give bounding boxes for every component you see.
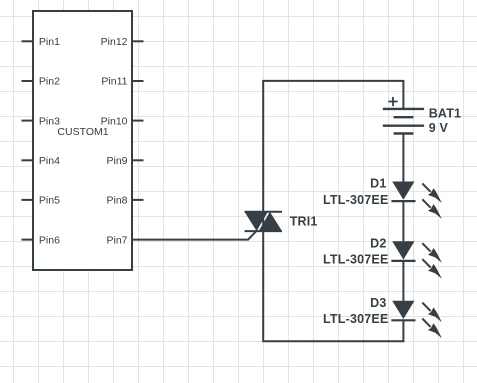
svg-text:Pin11: Pin11 [101, 76, 127, 88]
wire D2 to D3 [402, 261, 404, 301]
pin 5 stub [22, 199, 34, 201]
triac TRI1 [245, 212, 283, 231]
wire triac to battery (top rail) [263, 81, 403, 212]
LED D1 [391, 182, 442, 220]
svg-text:LTL-307EE: LTL-307EE [323, 312, 388, 326]
wire triac to bottom rail [263, 231, 403, 341]
pin 8 stub [132, 199, 144, 201]
svg-text:9 V: 9 V [429, 121, 449, 135]
IC U1 CUSTOM1 body [33, 11, 132, 270]
svg-text:TRI1: TRI1 [290, 215, 318, 229]
svg-text:Pin9: Pin9 [106, 155, 127, 167]
svg-text:D3: D3 [370, 296, 386, 310]
svg-text:Pin5: Pin5 [39, 195, 60, 207]
svg-text:Pin1: Pin1 [39, 36, 60, 48]
svg-text:LTL-307EE: LTL-307EE [323, 193, 388, 207]
svg-text:Pin4: Pin4 [39, 155, 60, 167]
svg-text:BAT1: BAT1 [429, 107, 462, 121]
svg-text:CUSTOM1: CUSTOM1 [57, 126, 108, 138]
pin 6 stub [22, 239, 34, 241]
svg-text:Pin7: Pin7 [106, 234, 127, 246]
pin 10 stub [132, 120, 144, 122]
pin 9 stub [132, 159, 144, 161]
svg-text:Pin6: Pin6 [39, 234, 60, 246]
battery plus sign [388, 97, 397, 106]
pin 3 stub [22, 120, 34, 122]
pin 12 stub [132, 40, 144, 42]
svg-text:LTL-307EE: LTL-307EE [323, 253, 388, 267]
svg-text:D1: D1 [370, 177, 386, 191]
svg-text:Pin12: Pin12 [101, 36, 128, 48]
pin 1 stub [22, 40, 34, 42]
svg-text:Pin2: Pin2 [39, 76, 60, 88]
battery BAT1 plates [383, 109, 424, 134]
wire battery to D1 [402, 134, 404, 182]
LED D3 [391, 301, 442, 339]
pin 4 stub [22, 159, 34, 161]
pin 11 stub [132, 80, 144, 82]
svg-text:D2: D2 [370, 236, 386, 250]
svg-text:Pin8: Pin8 [106, 195, 127, 207]
LED D2 [391, 241, 442, 278]
wire D1 to D2 [402, 201, 404, 241]
pin 2 stub [22, 80, 34, 82]
wire Pin7 to triac gate [132, 231, 256, 240]
